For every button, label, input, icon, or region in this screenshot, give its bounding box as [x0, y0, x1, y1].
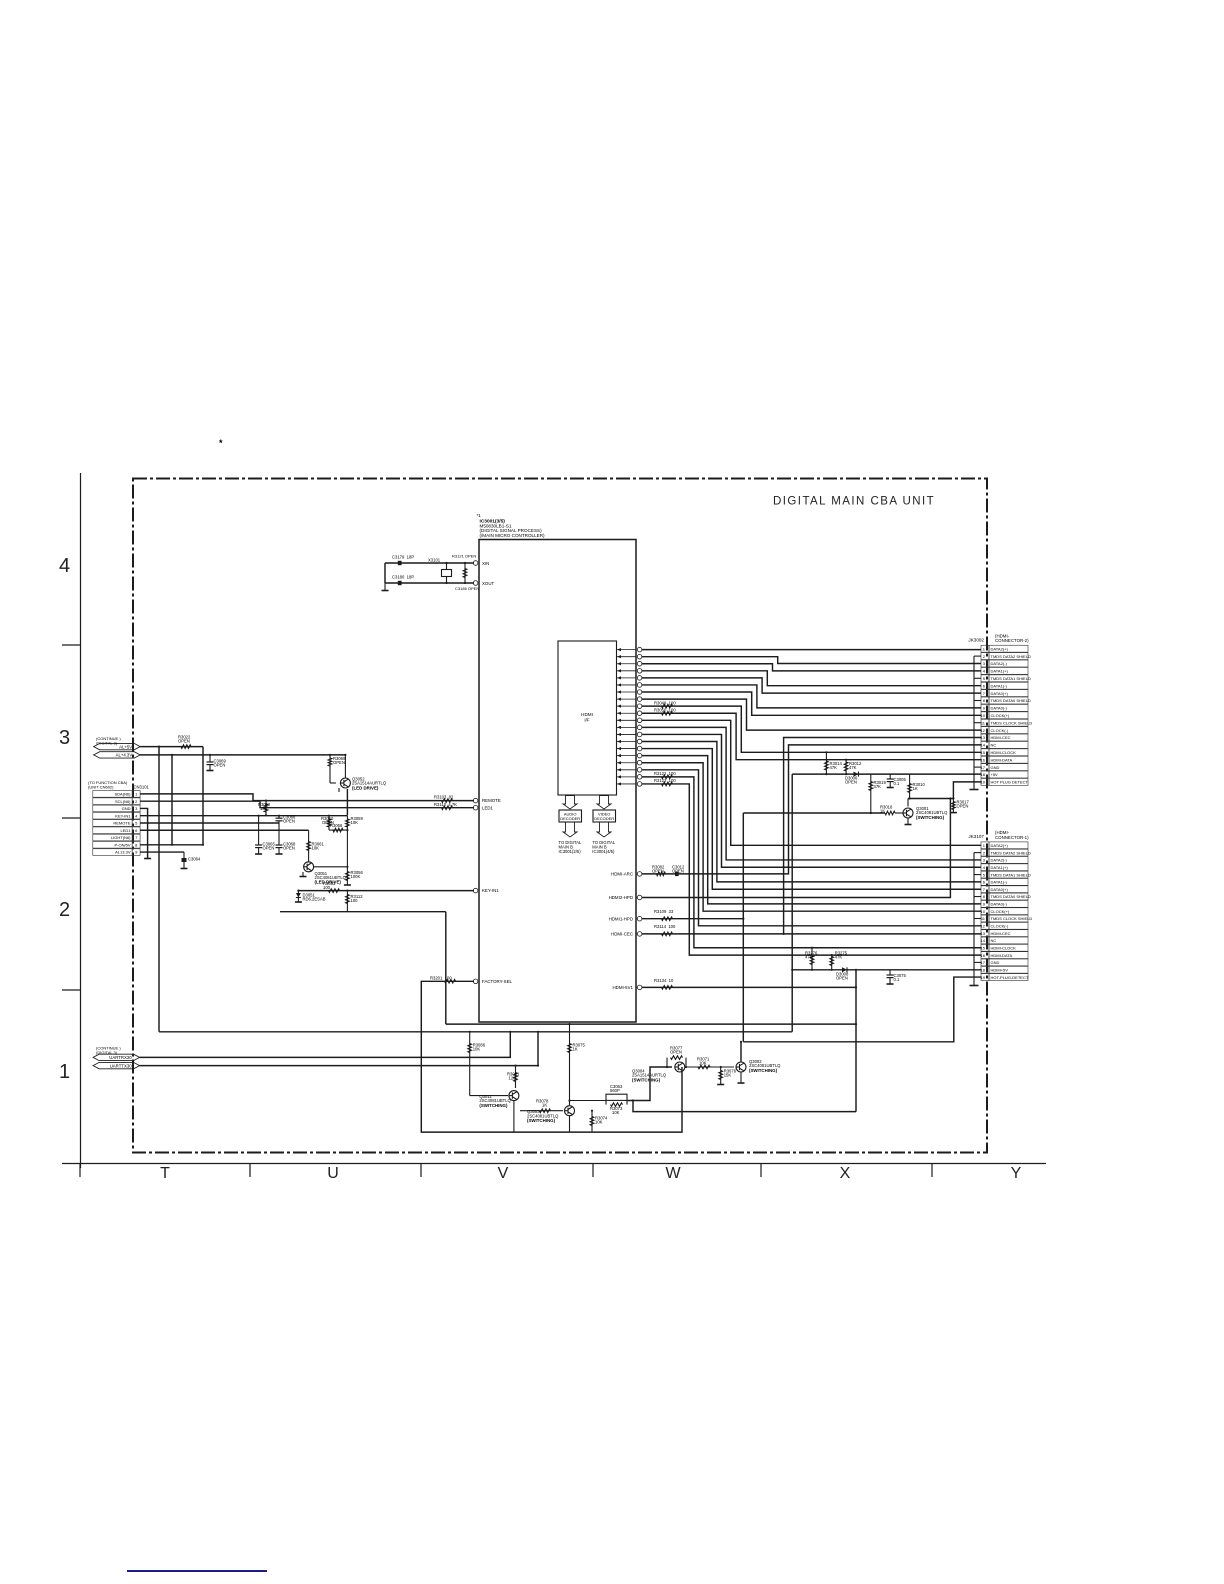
resistor R3069 OPEN	[328, 754, 346, 783]
audio decoder arrow	[563, 796, 577, 810]
svg-text:DATA2(+): DATA2(+)	[991, 843, 1009, 848]
resistor R3014 47K (DDC clock pullup)	[825, 751, 843, 775]
svg-text:14: 14	[981, 938, 986, 943]
pin HDMI-ARC of IC3001	[611, 872, 642, 877]
JK3107 TMDS shield ground bus	[970, 853, 982, 986]
svg-text:OPEN: OPEN	[845, 779, 857, 784]
resistor R3049 100	[654, 700, 676, 708]
svg-text:OPEN: OPEN	[263, 846, 275, 851]
svg-text:XIN: XIN	[482, 561, 489, 566]
video decoder arrow	[597, 796, 611, 810]
resistor R3123 100	[654, 778, 676, 786]
resistor R3086 10K	[468, 1031, 486, 1096]
pin XIN of IC3001	[473, 561, 489, 566]
svg-text:HDMI-5V1: HDMI-5V1	[613, 985, 634, 990]
wire mid power line	[446, 912, 857, 1025]
VIDEO DECODER block	[593, 810, 616, 822]
resistor R3110 4.7K	[434, 802, 457, 810]
resistor R3022 OPEN	[178, 735, 191, 749]
svg-text:R3050 100: R3050 100	[654, 707, 676, 712]
svg-text:OPEN: OPEN	[333, 760, 345, 765]
wire cluster bottom rail	[280, 911, 446, 913]
svg-text:P-ON/5V: P-ON/5V	[114, 842, 130, 847]
svg-text:3: 3	[59, 727, 70, 749]
wire flag verticals to lower rows	[158, 746, 173, 1032]
svg-text:13: 13	[981, 931, 986, 936]
pin HDMI1-HPD of IC3001	[609, 916, 642, 921]
pin HDMI-5V1 of IC3001	[613, 985, 642, 990]
svg-text:GND: GND	[991, 765, 1000, 770]
resistor R3112 100	[346, 890, 364, 912]
net flag AL+4.3V	[94, 752, 141, 758]
zone number 2	[59, 899, 70, 921]
resistor R3109 33	[654, 909, 674, 921]
zone letter U	[327, 1165, 339, 1182]
svg-text:TMDS DATA2 SHIELD: TMDS DATA2 SHIELD	[991, 850, 1031, 855]
svg-text:1K: 1K	[573, 1047, 578, 1052]
IC3001 TMDS pin circles (right edge fan)	[637, 647, 642, 786]
svg-text:DATA0(+): DATA0(+)	[991, 887, 1009, 892]
schematic border frame (dash-dot)	[133, 479, 987, 1153]
resistor R3082 OPEN	[652, 865, 666, 876]
pin HDMI-CEC of IC3001	[611, 932, 642, 937]
wire bottom ground rail	[740, 1041, 742, 1043]
resistor R3050 OPEN	[321, 815, 334, 830]
capacitor C3180 18P	[392, 575, 414, 586]
wire AL power line (left to V2)	[159, 1031, 792, 1033]
svg-text:HDMI+5V: HDMI+5V	[991, 967, 1009, 972]
svg-text:DECODER: DECODER	[594, 816, 614, 821]
svg-text:R3066: R3066	[330, 823, 343, 828]
svg-text:DATA0(+): DATA0(+)	[991, 691, 1009, 696]
capacitor C3069 OPEN	[207, 754, 227, 771]
capacitor C3063 560P	[606, 1084, 627, 1100]
resistor R3012 47K (DDC data pullup)	[844, 759, 862, 776]
svg-text:TMDS CLOCK SHIELD: TMDS CLOCK SHIELD	[991, 720, 1033, 725]
svg-text:TMDS DATA1 SHIELD: TMDS DATA1 SHIELD	[991, 872, 1031, 877]
svg-text:UARTRX30: UARTRX30	[109, 1055, 132, 1060]
resistor R3134 10	[654, 978, 674, 989]
svg-text:CONNECTOR-2): CONNECTOR-2)	[995, 638, 1029, 643]
svg-text:C3180 18P: C3180 18P	[392, 575, 414, 580]
svg-text:DATA1(-): DATA1(-)	[991, 683, 1008, 688]
wire +5V rail to JK3002 pin18	[792, 773, 981, 775]
svg-text:DATA2(-): DATA2(-)	[991, 661, 1008, 666]
svg-text:(SWITCHING): (SWITCHING)	[479, 1103, 508, 1108]
svg-text:(SWITCHING): (SWITCHING)	[916, 815, 945, 820]
bottom ruler line with zone ticks	[62, 1164, 1046, 1178]
svg-text:120: 120	[509, 1076, 517, 1081]
svg-text:R3134 10: R3134 10	[654, 978, 674, 983]
svg-text:4: 4	[59, 555, 70, 577]
wire branch to R3081	[537, 1031, 539, 1067]
svg-text:KEY-IN1: KEY-IN1	[115, 813, 131, 818]
svg-text:TMDS DATA0 SHIELD: TMDS DATA0 SHIELD	[991, 698, 1031, 703]
resistor R3081 120	[507, 1065, 520, 1089]
pin KEY-IN1 of IC3001	[473, 888, 499, 893]
svg-text:SDA(N6): SDA(N6)	[114, 792, 131, 797]
wire switch node V1 down to JK3107 pin19	[743, 813, 981, 1042]
resistor R3276 47K (DDC pullup)	[805, 947, 818, 971]
transistor Q3004 2SA1514AURTLQ (SWITCHING)	[632, 1062, 734, 1082]
svg-text:AL13.3V: AL13.3V	[115, 850, 131, 855]
diode D3008 OPEN (inline on rail2)	[836, 967, 849, 980]
wire 5V1 junction vertical	[855, 969, 857, 1112]
zone number 4	[59, 555, 70, 577]
svg-text:(SWITCHING): (SWITCHING)	[749, 1068, 778, 1073]
svg-text:SCL(N6): SCL(N6)	[115, 799, 131, 804]
svg-text:10K: 10K	[473, 1047, 481, 1052]
wire UARTTX30 line	[140, 1065, 538, 1067]
op-amp/IC IC3001 (3/5) DIGITAL SIGNAL PROCESS / MAIN MICRO CONTROLLER	[477, 513, 637, 1022]
svg-text:12: 12	[981, 924, 986, 929]
svg-text:19: 19	[981, 780, 986, 785]
svg-text:0.1: 0.1	[894, 781, 900, 786]
svg-text:IC3001(4/5): IC3001(4/5)	[592, 849, 615, 854]
resistor R3066 OPEN	[329, 823, 349, 832]
connector JK3107 HDMI-CONNECTOR-1 (19 pins)	[968, 830, 1032, 980]
label TO DIGITAL MAIN B IC3001(4/5)	[592, 840, 616, 854]
wire AL+5V line	[140, 747, 203, 845]
zener diode D3051 RD6.2ESAB	[295, 890, 326, 903]
pin LED1 of IC3001	[473, 805, 493, 810]
svg-text:DECODER: DECODER	[560, 816, 580, 821]
wire HDMI-ARC to JK3002 pin14	[642, 745, 981, 874]
svg-text:R3109 33: R3109 33	[654, 909, 674, 914]
svg-text:10K: 10K	[351, 820, 359, 825]
audio to digital main arrow	[563, 822, 577, 837]
svg-text:OPEN: OPEN	[178, 739, 190, 744]
svg-text:HDMI-CEC: HDMI-CEC	[611, 932, 633, 937]
capacitor C3186 OPEN	[455, 586, 479, 591]
svg-text:47K: 47K	[835, 955, 843, 960]
svg-text:10K: 10K	[312, 846, 320, 851]
capacitor C3179 18P	[392, 555, 414, 566]
wire P-ON/5V row	[140, 844, 204, 846]
svg-text:XOUT: XOUT	[482, 581, 495, 586]
svg-text:T: T	[160, 1165, 170, 1182]
resistor R3061 10K	[307, 830, 325, 858]
wire 5V1 bottom line	[632, 1099, 856, 1111]
svg-text:HDMI-CLOCK: HDMI-CLOCK	[991, 945, 1017, 950]
svg-text:UARTTX30: UARTTX30	[110, 1063, 132, 1068]
svg-text:OPEN: OPEN	[670, 1050, 682, 1055]
svg-text:*: *	[219, 438, 223, 448]
pin REMOTE of IC3001	[473, 798, 501, 803]
svg-text:I/F: I/F	[584, 718, 590, 723]
svg-text:X3101: X3101	[428, 558, 441, 563]
svg-text:17: 17	[981, 960, 986, 965]
svg-text:10: 10	[981, 713, 986, 718]
svg-text:OPEN: OPEN	[957, 804, 969, 809]
wire GND pin to ground	[140, 808, 151, 858]
transistor Q3011 2SC4081UBTLQ (SWITCHING)	[470, 1091, 519, 1133]
svg-text:R3110 4.7K: R3110 4.7K	[434, 802, 457, 807]
svg-text:C3064: C3064	[188, 857, 201, 862]
capacitor C3066 OPEN	[276, 815, 297, 824]
zone number 3	[59, 727, 70, 749]
wire crystal network	[382, 563, 475, 591]
svg-text:TMDS CLOCK SHIELD: TMDS CLOCK SHIELD	[991, 916, 1033, 921]
wire +5V distribution V2 (rail1 to rail2 to switch output)	[791, 774, 793, 1032]
net flag UARTTX30	[93, 1062, 140, 1068]
wire Q3001 collector node to JK3002 pin19	[908, 782, 981, 807]
svg-text:R3123 100: R3123 100	[654, 778, 676, 783]
svg-text:DATA2(-): DATA2(-)	[991, 858, 1008, 863]
svg-text:C3186 OPEN: C3186 OPEN	[455, 586, 479, 591]
svg-text:KEY-IN1: KEY-IN1	[482, 888, 499, 893]
svg-text:CLOCK(+): CLOCK(+)	[991, 909, 1010, 914]
resistor R3017 OPEN to ground	[950, 799, 970, 813]
wire HDMI1-HPD to switch node V1	[642, 918, 745, 920]
svg-text:10K: 10K	[612, 1110, 620, 1115]
svg-text:OPEN: OPEN	[214, 763, 226, 768]
page asterisk mark	[219, 438, 223, 448]
svg-text:JK3107: JK3107	[968, 834, 984, 839]
svg-text:GND: GND	[122, 806, 131, 811]
wire SDA(N6) to IC REMOTE pin	[140, 794, 474, 801]
wire: TMDS fan to JK3107 (lower staircase)	[642, 720, 981, 955]
HDMI I/F block inside IC3001	[558, 641, 617, 795]
svg-text:REMOTE: REMOTE	[482, 798, 501, 803]
svg-text:15: 15	[981, 750, 986, 755]
svg-text:LED1: LED1	[482, 805, 494, 810]
svg-text:R3122 100: R3122 100	[654, 771, 676, 776]
svg-text:1K: 1K	[542, 1103, 547, 1108]
svg-text:47K: 47K	[805, 955, 813, 960]
svg-text:2: 2	[59, 899, 70, 921]
svg-text:100K: 100K	[351, 874, 361, 879]
svg-text:10: 10	[981, 909, 986, 914]
resistor R3052 10K	[258, 800, 271, 817]
svg-text:100: 100	[351, 898, 359, 903]
svg-text:18: 18	[981, 967, 986, 972]
resistor R3275 47K (DDC pullup)	[830, 951, 848, 971]
svg-text:CLOCK(-): CLOCK(-)	[991, 924, 1009, 929]
resistor R3201 100	[430, 975, 456, 983]
svg-text:C3179 18P: C3179 18P	[392, 555, 414, 560]
zone letter V	[498, 1165, 509, 1182]
svg-text:LIGHT(N6): LIGHT(N6)	[111, 835, 131, 840]
svg-text:HDMI-CEC: HDMI-CEC	[991, 735, 1011, 740]
svg-text:HDMI1-HPD: HDMI1-HPD	[609, 916, 633, 921]
wire KEY-IN1 line to IC	[298, 890, 474, 892]
svg-text:DATA0(-): DATA0(-)	[991, 706, 1008, 711]
svg-text:HOT PLUG DETECT: HOT PLUG DETECT	[991, 780, 1029, 785]
svg-text:CONNECTOR-1): CONNECTOR-1)	[995, 835, 1029, 840]
svg-text:16: 16	[981, 953, 986, 958]
svg-text:+5V: +5V	[991, 772, 999, 777]
svg-text:HDMI-CLOCK: HDMI-CLOCK	[991, 750, 1017, 755]
svg-text:CN3101: CN3101	[134, 785, 150, 790]
resistor R3056 100K	[344, 867, 364, 885]
resistor R3073 10K	[606, 1101, 627, 1115]
resistor R3078 1K	[520, 1099, 563, 1113]
svg-text:HDMI: HDMI	[581, 712, 593, 717]
resistor R3077 OPEN (bridge)	[666, 1046, 687, 1069]
svg-text:17: 17	[981, 765, 986, 770]
svg-text:RD6.2ESAB: RD6.2ESAB	[303, 897, 326, 902]
label TO DIGITAL MAIN B IC3001(2/5)	[559, 840, 583, 854]
resistor R3059 10K	[346, 816, 364, 867]
wire +5V rail2 to JK3107 pin18	[792, 969, 981, 971]
svg-text:CLOCK(+): CLOCK(+)	[991, 713, 1010, 718]
zone letter Y	[1011, 1165, 1022, 1182]
svg-text:(LED DRIVE): (LED DRIVE)	[352, 785, 379, 790]
svg-text:DATA0(-): DATA0(-)	[991, 902, 1008, 907]
svg-text:DATA1(-): DATA1(-)	[991, 880, 1008, 885]
svg-text:HDMI2-HPD: HDMI2-HPD	[609, 895, 633, 900]
svg-text:R3201 100: R3201 100	[430, 975, 452, 980]
svg-text:TMDS DATA0 SHIELD: TMDS DATA0 SHIELD	[991, 894, 1031, 899]
resistor R3010 1K (HPD pullup)	[908, 774, 926, 800]
resistor R3074 10K	[590, 1110, 608, 1133]
wire FACTORY-SEL to bottom rail	[421, 981, 682, 1132]
svg-text:(SWITCHING): (SWITCHING)	[632, 1077, 661, 1082]
svg-text:HDMI-DATA: HDMI-DATA	[991, 953, 1013, 958]
video to digital main arrow	[597, 822, 611, 837]
wire Q3001 base line	[743, 812, 885, 814]
svg-text:AL+4.3V: AL+4.3V	[116, 753, 133, 758]
svg-text:15: 15	[981, 945, 986, 950]
resistor R3053 100	[323, 881, 340, 892]
wire UARTRX30 line	[140, 1031, 512, 1058]
svg-text:16: 16	[981, 757, 986, 762]
resistor R3121 OPEN	[452, 554, 476, 584]
svg-text:REMOTE: REMOTE	[113, 821, 130, 826]
capacitor C3064	[181, 852, 202, 868]
svg-text:OPEN: OPEN	[283, 846, 295, 851]
svg-text:HOT-PLUG-DETECT: HOT-PLUG-DETECT	[991, 975, 1029, 980]
wire: TMDS fan to JK3002 (upper staircase)	[642, 650, 981, 760]
wire AL+4.3V line to LED drive	[140, 755, 347, 815]
crystal X3101	[428, 558, 452, 585]
pin FACTORY-SEL of IC3001	[473, 979, 512, 984]
svg-text:(/MAIN MICRO CONTROLLER): (/MAIN MICRO CONTROLLER)	[480, 533, 546, 538]
diode D3006 OPEN (inline on +5V rail)	[845, 772, 859, 785]
net flag UARTRX30 (continue digital 3)	[93, 1046, 140, 1061]
svg-text:13: 13	[981, 735, 986, 740]
svg-text:560P: 560P	[610, 1088, 620, 1093]
svg-text:CLOCK(-): CLOCK(-)	[991, 728, 1009, 733]
wire AL13.3V row	[140, 851, 184, 853]
svg-text:(SWITCHING): (SWITCHING)	[527, 1118, 556, 1123]
capacitor C3012 OPEN	[672, 865, 685, 877]
svg-text:NC: NC	[991, 938, 997, 943]
JK3002 TMDS shield ground bus	[970, 656, 982, 789]
svg-text:15K: 15K	[724, 1073, 732, 1078]
resistor R3018 1K (base)	[880, 805, 895, 815]
capacitor C3065 OPEN	[255, 815, 275, 854]
svg-text:U: U	[327, 1165, 339, 1182]
svg-text:47K: 47K	[830, 765, 838, 770]
svg-text:12: 12	[981, 728, 986, 733]
svg-text:Y: Y	[1011, 1165, 1022, 1182]
resistor R3114 100	[654, 924, 676, 936]
resistor R3076 15K	[717, 1066, 737, 1085]
HDMI I/F to IC edge arrows	[617, 648, 637, 786]
zone letter T	[160, 1165, 170, 1182]
wire REMOTE row	[140, 822, 279, 824]
pin HDMI2-HPD of IC3001	[609, 895, 642, 900]
svg-text:HDMI-CEC: HDMI-CEC	[991, 931, 1011, 936]
svg-text:IC3001(2/5): IC3001(2/5)	[559, 849, 582, 854]
svg-text:JK3002: JK3002	[968, 638, 984, 643]
svg-text:DATA1(+): DATA1(+)	[991, 865, 1009, 870]
AUDIO DECODER block	[559, 810, 582, 822]
svg-text:TMDS DATA2 SHIELD: TMDS DATA2 SHIELD	[991, 654, 1031, 659]
wire HDMI-CEC to JK3107 pin13 and JK3002 pin13	[642, 738, 981, 936]
svg-text:(UNIT CN602): (UNIT CN602)	[88, 785, 114, 790]
svg-text:LED1: LED1	[120, 828, 131, 833]
zone letter X	[840, 1165, 851, 1182]
svg-text:R3121 OPEN: R3121 OPEN	[452, 554, 476, 559]
svg-text:47K: 47K	[874, 784, 882, 789]
svg-text:HDMI-ARC: HDMI-ARC	[611, 872, 633, 877]
svg-text:OPEN: OPEN	[836, 976, 848, 981]
footer blue underline	[127, 1570, 267, 1572]
connector CN3101 TO FUNCTION CBA (UNIT CN602)	[88, 780, 150, 855]
svg-text:W: W	[665, 1165, 681, 1182]
svg-text:AL+5V: AL+5V	[119, 744, 132, 749]
zone number 1	[59, 1061, 70, 1083]
capacitor C3005 0.1	[887, 774, 907, 787]
resistor R3103 82	[434, 795, 454, 803]
wire SCL(N6) to IC LED1 pin	[140, 801, 474, 808]
wire C3063 node to Q3004 base	[627, 1067, 672, 1101]
svg-text:HDMI-DATA: HDMI-DATA	[991, 757, 1013, 762]
svg-text:0.1: 0.1	[894, 977, 900, 982]
transistor Q3002 2SC4081UBTLQ (SWITCHING)	[736, 1042, 781, 1083]
svg-text:1K: 1K	[913, 786, 918, 791]
zone letter W	[665, 1165, 681, 1182]
capacitor C3068 OPEN	[276, 823, 297, 854]
svg-text:X: X	[840, 1165, 851, 1182]
transistor Q3052 2SA1514AURTLQ (LED DRIVE)	[339, 754, 387, 792]
svg-text:NC: NC	[991, 743, 997, 748]
svg-text:(DIGITAL 3): (DIGITAL 3)	[96, 740, 118, 745]
transistor Q3003 2SC4081UBTLQ (SWITCHING)	[527, 1099, 606, 1132]
svg-text:DATA1(+): DATA1(+)	[991, 669, 1009, 674]
transistor Q3051 2SC4081UBTLQ (LED DRIVE)	[300, 858, 349, 885]
svg-text:TMDS DATA1 SHIELD: TMDS DATA1 SHIELD	[991, 676, 1031, 681]
svg-text:100: 100	[323, 885, 331, 890]
resistor R3071 10K	[697, 1056, 710, 1068]
transistor Q3001 2SC4081UBTLQ (SWITCHING)	[895, 806, 948, 825]
svg-text:47K: 47K	[849, 765, 857, 770]
svg-text:R3114 100: R3114 100	[654, 924, 676, 929]
resistor R3075 1K	[568, 1023, 586, 1101]
title DIGITAL MAIN CBA UNIT	[773, 496, 935, 508]
svg-text:10K: 10K	[595, 1120, 603, 1125]
resistor R3019 47K	[869, 774, 887, 814]
wire LED1 row	[140, 829, 309, 831]
svg-text:10K: 10K	[699, 1061, 707, 1066]
connector JK3002 HDMI-CONNECTOR-2 (19 pins)	[968, 634, 1032, 786]
svg-text:R3049 100: R3049 100	[654, 700, 676, 705]
pin XOUT of IC3001	[473, 581, 494, 586]
svg-text:GND: GND	[991, 960, 1000, 965]
resistor R3122 100	[654, 771, 676, 779]
left ruler line with zone ticks	[62, 473, 81, 1168]
svg-text:DIGITAL MAIN CBA UNIT: DIGITAL MAIN CBA UNIT	[773, 496, 935, 508]
svg-text:*1: *1	[477, 513, 482, 518]
wire HDMI-5V1 sense to +5V switch rail	[642, 986, 857, 988]
net flag AL+5V (continue digital 3)	[94, 736, 141, 750]
svg-text:1: 1	[59, 1061, 70, 1083]
svg-text:10K: 10K	[260, 806, 268, 811]
wire KEY-IN1 row	[140, 815, 347, 817]
